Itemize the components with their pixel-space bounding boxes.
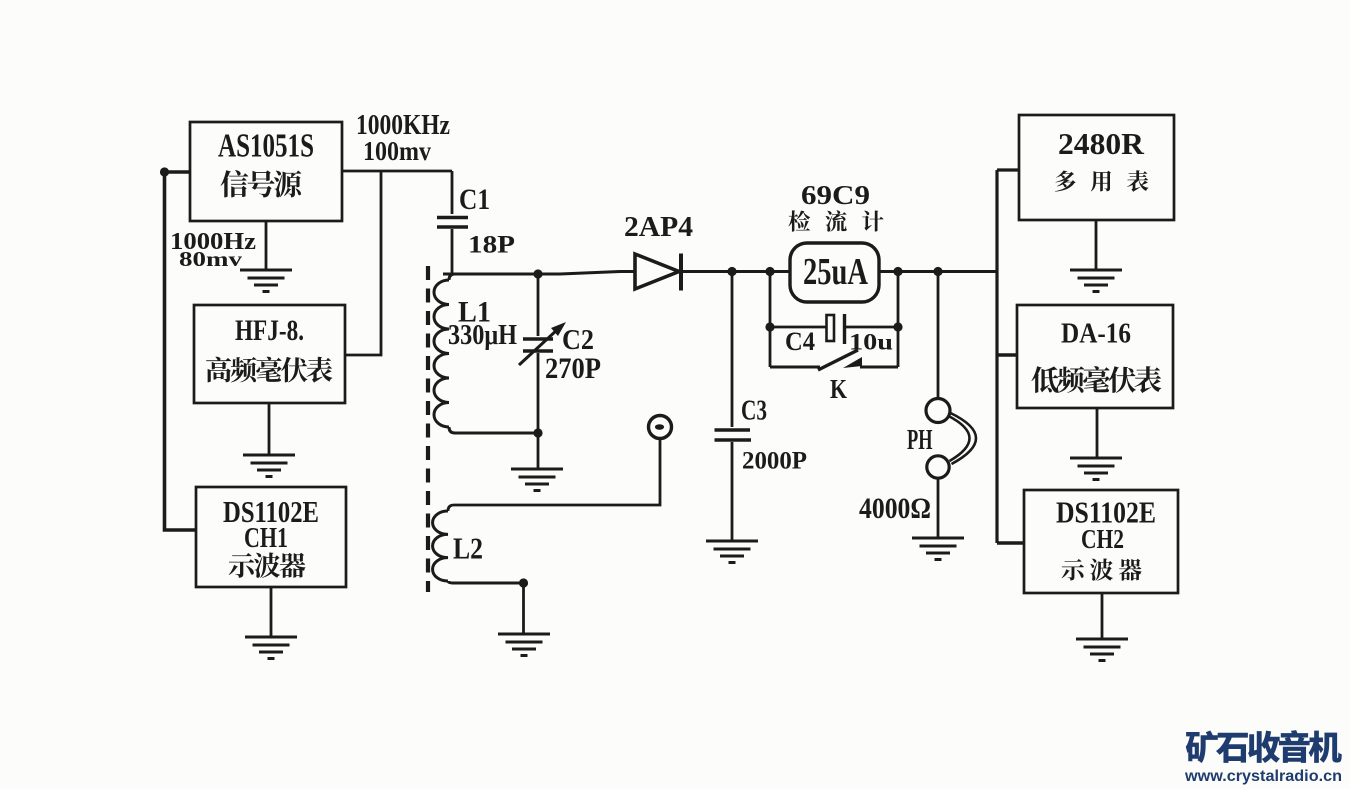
svg-text:69C9: 69C9	[801, 180, 870, 210]
svg-text:2000P: 2000P	[742, 448, 807, 475]
svg-text:4000Ω: 4000Ω	[859, 492, 931, 525]
svg-text:C4: C4	[785, 327, 815, 356]
svg-text:100mv: 100mv	[363, 136, 431, 166]
svg-text:2AP4: 2AP4	[624, 212, 693, 243]
svg-text:PH: PH	[907, 425, 933, 456]
svg-text:80mv: 80mv	[179, 247, 243, 271]
svg-text:C3: C3	[741, 395, 767, 427]
svg-text:CH1: CH1	[244, 523, 288, 554]
svg-text:www.crystalradio.cn: www.crystalradio.cn	[1184, 768, 1342, 785]
svg-text:25uA: 25uA	[803, 251, 868, 293]
svg-text:270P: 270P	[545, 352, 601, 385]
svg-text:CH2: CH2	[1081, 524, 1124, 554]
svg-text:C1: C1	[459, 183, 490, 216]
svg-text:330μH: 330μH	[448, 319, 517, 351]
svg-text:DA-16: DA-16	[1061, 318, 1131, 350]
svg-text:L2: L2	[453, 531, 483, 566]
svg-text:2480R: 2480R	[1058, 126, 1145, 161]
svg-text:K: K	[830, 374, 847, 404]
svg-text:18P: 18P	[468, 232, 515, 259]
svg-text:10u: 10u	[849, 330, 893, 355]
svg-text:HFJ-8.: HFJ-8.	[235, 314, 304, 347]
svg-text:AS1051S: AS1051S	[218, 128, 314, 165]
